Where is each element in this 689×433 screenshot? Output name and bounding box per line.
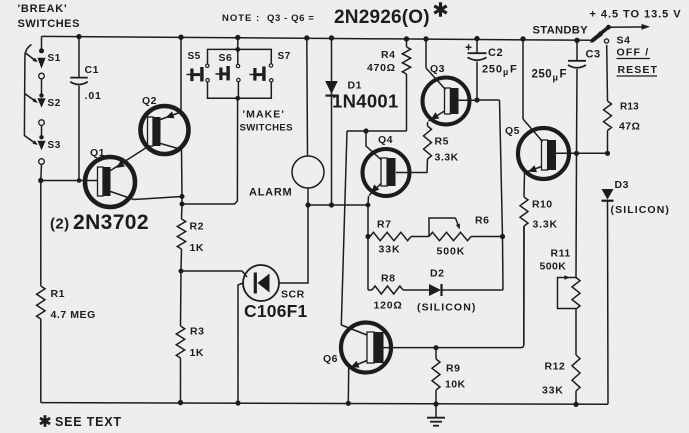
- node D1 bottom junction: [329, 202, 334, 207]
- node Q4 emitter junction: [366, 203, 371, 208]
- wire Q6 emitter: [348, 361, 367, 404]
- svg-text:250: 250: [532, 69, 553, 81]
- note asterisk: [434, 2, 446, 16]
- label R13: [620, 102, 639, 113]
- node make top bracket: [235, 47, 240, 52]
- label S7: [278, 51, 291, 62]
- svg-text:NOTE :: NOTE :: [222, 13, 260, 24]
- transistor Q6: [341, 323, 391, 373]
- svg-text:R11: R11: [551, 248, 571, 260]
- label S1: [48, 53, 61, 64]
- node C1 top: [76, 34, 81, 39]
- svg-text:C3: C3: [586, 49, 601, 61]
- wire Q1 collector: [111, 192, 183, 200]
- svg-text:R10: R10: [532, 199, 552, 211]
- label Q6: [323, 353, 338, 365]
- label R1 value: [51, 309, 96, 321]
- resistor R3: [176, 271, 184, 403]
- svg-text:S2: S2: [48, 98, 61, 109]
- wire Q1 base: [41, 180, 98, 182]
- label SWITCHES (break): [18, 18, 80, 30]
- label R12 value: [542, 385, 564, 397]
- resistor R10: [520, 197, 528, 345]
- wire Q1 emitter to Q2 base: [111, 147, 149, 171]
- label MAKE: [243, 109, 286, 121]
- svg-text:R8: R8: [381, 273, 395, 285]
- svg-text:SEE TEXT: SEE TEXT: [55, 415, 122, 429]
- svg-text:RESET: RESET: [618, 64, 659, 76]
- switch gang arm: [24, 45, 31, 137]
- wire Q3 emitter: [429, 111, 445, 121]
- wire SCR anode: [279, 205, 308, 283]
- svg-text:R3: R3: [190, 326, 204, 338]
- wire R11-R12: [575, 309, 577, 355]
- label C2: [488, 47, 503, 59]
- svg-text:Q3 - Q6 =: Q3 - Q6 =: [267, 13, 314, 24]
- svg-text:S1: S1: [48, 53, 61, 64]
- scr C106F1: [243, 265, 279, 301]
- transistor Q2: [141, 106, 189, 154]
- node R7 left junction: [365, 234, 370, 239]
- node R2/R3/gate junction: [179, 269, 184, 274]
- emitter arrow Q4: [371, 184, 379, 192]
- emitter arrow Q5: [528, 165, 537, 172]
- node R3 bottom at rail: [178, 400, 183, 405]
- transistor Q4: [363, 149, 410, 196]
- label R5 value: [435, 152, 459, 164]
- label R10 value: [533, 219, 558, 231]
- svg-text:120Ω: 120Ω: [374, 300, 403, 312]
- node R12 bottom at rail: [573, 402, 578, 407]
- label R4 value: [367, 62, 396, 74]
- emitter arrow Q3: [431, 112, 440, 120]
- wire R7-R8 left link: [367, 237, 369, 291]
- wire D2 to right riser: [442, 237, 504, 291]
- label S6: [219, 52, 233, 64]
- switch S1: [37, 48, 45, 78]
- svg-text:Q6: Q6: [323, 353, 338, 365]
- label R6: [475, 215, 489, 227]
- label C1: [85, 64, 99, 76]
- label S3: [48, 140, 61, 151]
- label R7 value: [379, 244, 401, 256]
- node alarm bottom junction: [305, 202, 310, 207]
- svg-text:OFF /: OFF /: [617, 47, 650, 59]
- node Q2 emitter at rail: [178, 35, 183, 40]
- node C2 top at rail: [474, 36, 479, 41]
- label RESET: [617, 64, 659, 76]
- switch S6: [216, 64, 241, 81]
- label SEE TEXT: [55, 415, 122, 429]
- switch S3: [37, 135, 45, 164]
- label 2N3702: [50, 211, 149, 234]
- resistor R8: [368, 286, 429, 294]
- wire Q5 emitter: [524, 167, 542, 198]
- svg-text:R9: R9: [446, 363, 460, 375]
- svg-text:Q5: Q5: [505, 125, 520, 137]
- wire Q6 base: [384, 226, 525, 348]
- svg-text:500K: 500K: [540, 261, 567, 273]
- node Q4 collector junction: [363, 128, 368, 133]
- switch S2 blade: [25, 94, 38, 103]
- svg-text:(SILICON): (SILICON): [611, 204, 670, 216]
- wire right rail riser (bottom rail to D3): [607, 201, 610, 405]
- node C3 top at rail: [574, 38, 579, 43]
- label R12: [545, 361, 566, 373]
- label C2 value: [482, 64, 517, 78]
- wire Q2 collector: [161, 144, 183, 197]
- svg-text:µ: µ: [553, 73, 558, 84]
- resistor R12: [572, 355, 580, 404]
- svg-text:ALARM: ALARM: [249, 187, 292, 199]
- label R10: [532, 199, 552, 211]
- potentiometer R11: [558, 275, 581, 309]
- label C3: [586, 49, 601, 61]
- svg-text:C1: C1: [85, 64, 99, 76]
- svg-text:10K: 10K: [445, 379, 465, 391]
- switch S2: [37, 93, 45, 125]
- node D1 top at rail: [329, 35, 334, 40]
- svg-text:'MAKE': 'MAKE': [243, 109, 286, 121]
- node Q6 emitter at rail: [346, 401, 351, 406]
- label D1: [348, 80, 362, 92]
- emitter arrow Q2: [166, 111, 175, 118]
- potentiometer R6: [429, 218, 503, 241]
- svg-text:Q3: Q3: [430, 63, 445, 75]
- node base/C3 junction: [574, 151, 579, 156]
- label S2: [48, 98, 61, 109]
- label OFF/: [617, 47, 651, 59]
- svg-text:R1: R1: [51, 288, 65, 300]
- svg-text:'BREAK': 'BREAK': [18, 3, 68, 15]
- node R6 right junction: [500, 234, 505, 239]
- label D2 silicon: [417, 302, 476, 314]
- label Q4: [378, 134, 393, 146]
- resistor R1: [37, 181, 45, 403]
- node Q3 collector at rail: [423, 36, 428, 41]
- node break-switch chain top corner: [41, 36, 43, 50]
- wire S1-S2: [41, 79, 43, 95]
- wire bottom negative rail: [41, 403, 608, 405]
- node C2 bottom junction: [474, 97, 479, 102]
- wire make-switch rail drop: [237, 38, 239, 65]
- label C3 value: [532, 69, 567, 84]
- svg-text:(SILICON): (SILICON): [417, 302, 476, 314]
- label NOTE: [222, 13, 260, 24]
- svg-text:D3: D3: [615, 179, 629, 191]
- switch S4 lever: [590, 28, 609, 43]
- wire Q3 collector: [426, 39, 446, 90]
- svg-text:47Ω: 47Ω: [619, 121, 640, 133]
- svg-text:250: 250: [482, 64, 503, 76]
- wire Q4 collector lead: [366, 131, 382, 160]
- label ALARM: [249, 187, 292, 199]
- resistor R13: [604, 45, 612, 153]
- transistor Q3: [423, 78, 470, 125]
- resistor R2: [177, 204, 185, 271]
- label STANDBY: [533, 25, 589, 37]
- svg-text:C106F1: C106F1: [244, 301, 308, 321]
- label R6 value: [437, 246, 466, 258]
- wire Q4 emitter drop: [367, 205, 369, 237]
- svg-text:S3: S3: [48, 140, 61, 151]
- label R7: [377, 219, 391, 231]
- transistor Q1: [85, 157, 135, 207]
- label R11: [551, 248, 571, 260]
- svg-text:S4: S4: [617, 35, 631, 47]
- svg-text:S6: S6: [219, 52, 233, 64]
- node C1 bottom: [77, 178, 82, 183]
- diode D2: [429, 284, 442, 296]
- svg-text:1K: 1K: [190, 347, 204, 359]
- svg-text:3.3K: 3.3K: [435, 152, 459, 164]
- switch S1 blade: [25, 53, 38, 63]
- label D3: [615, 179, 629, 191]
- wire alarm top lead: [306, 38, 309, 156]
- wire S2-S3: [41, 125, 43, 137]
- capacitor C1: [70, 37, 88, 181]
- switch S3 blade: [24, 136, 37, 146]
- switch S5: [187, 64, 210, 82]
- wire collector line to Q6: [341, 131, 347, 325]
- svg-text:S7: S7: [278, 51, 291, 62]
- label SCR: [281, 289, 305, 301]
- svg-text:1K: 1K: [190, 242, 204, 254]
- svg-text:µ: µ: [503, 67, 508, 77]
- alarm bell: [292, 156, 324, 188]
- resistor R4: [402, 39, 410, 131]
- wire make-switch top bracket: [208, 49, 272, 64]
- resistor R5: [396, 122, 432, 173]
- wire collector node to make switches: [182, 99, 238, 204]
- svg-text:F: F: [560, 69, 567, 81]
- resistor R9: [432, 348, 440, 404]
- wire collector node drop: [181, 197, 183, 205]
- node make top at rail: [235, 35, 240, 40]
- svg-text:R13: R13: [620, 102, 639, 113]
- label R2 value: [190, 242, 204, 254]
- wire Q4 emitter: [368, 184, 381, 206]
- svg-text:R2: R2: [190, 221, 204, 233]
- label Q1: [90, 147, 105, 159]
- node Q1 base junction: [38, 178, 43, 183]
- label C106F1: [244, 301, 308, 321]
- node Q1/Q2 collector junction: [180, 194, 185, 199]
- wire C2 junction to divider: [456, 100, 503, 237]
- diode D1: [325, 38, 338, 205]
- svg-text:3.3K: 3.3K: [533, 219, 558, 231]
- emitter arrow Q6: [351, 361, 360, 368]
- node R9 bottom at rail: [433, 401, 438, 406]
- label Q3: [430, 63, 445, 75]
- wire Q6 collector lead: [341, 325, 367, 335]
- label R2: [190, 221, 204, 233]
- svg-text:R7: R7: [377, 219, 391, 231]
- see-text asterisk: [40, 415, 50, 427]
- capacitor C3: [568, 40, 586, 277]
- svg-text:470Ω: 470Ω: [367, 62, 396, 74]
- transistor Q5: [518, 128, 569, 179]
- node make bottom bracket: [235, 96, 240, 101]
- wire SCR gate: [181, 271, 247, 277]
- svg-text:2N3702: 2N3702: [73, 211, 149, 234]
- diode D3: [602, 189, 614, 201]
- svg-text:SWITCHES: SWITCHES: [240, 123, 294, 134]
- label S4: [617, 35, 631, 47]
- label S5: [188, 51, 201, 62]
- wire S3 to base node: [40, 164, 43, 180]
- label C1 value: [85, 90, 102, 102]
- capacitor C2: [466, 39, 487, 100]
- svg-text:D2: D2: [430, 268, 444, 280]
- label BREAK: [18, 3, 68, 15]
- wire SCR cathode: [238, 283, 243, 403]
- svg-text:500K: 500K: [437, 246, 466, 258]
- svg-text:R12: R12: [545, 361, 566, 373]
- wire alarm junction row: [308, 204, 368, 206]
- svg-text:Q4: Q4: [378, 134, 393, 146]
- wire supply arrow: [609, 24, 651, 30]
- label R8: [381, 273, 395, 285]
- label R1: [51, 288, 65, 300]
- label R3 value: [190, 347, 204, 359]
- svg-text:SWITCHES: SWITCHES: [18, 18, 80, 30]
- svg-text:4.7 MEG: 4.7 MEG: [51, 309, 96, 321]
- node SCR cathode at rail: [235, 400, 240, 405]
- node base/D3 junction: [605, 151, 610, 156]
- label 1N4001: [332, 91, 399, 112]
- wire Q5 collector: [523, 39, 543, 142]
- svg-text:R4: R4: [381, 49, 395, 61]
- wire R4 to Q4 collector: [347, 130, 407, 132]
- label R11 value: [540, 261, 567, 273]
- svg-text:C2: C2: [488, 47, 503, 59]
- wire Q5 base: [556, 152, 608, 154]
- label D2: [430, 268, 444, 280]
- svg-text:+ 4.5 TO 13.5 V: + 4.5 TO 13.5 V: [590, 9, 682, 21]
- svg-text:(2): (2): [50, 216, 70, 233]
- svg-text:F: F: [510, 64, 517, 76]
- node R2 top junction: [180, 202, 185, 207]
- label 2N2926(O): [334, 7, 430, 28]
- wire top supply rail: [42, 36, 593, 40]
- svg-text:R5: R5: [435, 136, 449, 148]
- svg-text:S5: S5: [188, 51, 201, 62]
- node Q5 collector at rail: [520, 36, 525, 41]
- switch S7: [250, 64, 273, 82]
- label SWITCHES (make): [240, 123, 294, 134]
- wire alarm bottom lead: [307, 188, 309, 205]
- label R8 value: [374, 300, 403, 312]
- label D3 silicon: [611, 204, 670, 216]
- label supply voltage: [590, 9, 682, 21]
- svg-text:1N4001: 1N4001: [332, 91, 399, 112]
- node S4 lever tip: [606, 25, 611, 30]
- svg-text:.01: .01: [85, 90, 102, 102]
- svg-text:Q2: Q2: [142, 95, 157, 107]
- svg-text:33K: 33K: [379, 244, 401, 256]
- label Q5: [505, 125, 520, 137]
- node alarm top at rail: [304, 35, 309, 40]
- label R5: [435, 136, 449, 148]
- svg-text:Q1: Q1: [90, 147, 105, 159]
- label R4: [381, 49, 395, 61]
- svg-text:SCR: SCR: [281, 289, 305, 301]
- svg-text:2N2926(O): 2N2926(O): [334, 7, 430, 28]
- svg-text:33K: 33K: [542, 385, 564, 397]
- ground: [427, 404, 445, 426]
- svg-text:R6: R6: [475, 215, 489, 227]
- wire make-switch bottom bracket: [208, 82, 272, 98]
- svg-text:STANDBY: STANDBY: [533, 25, 589, 37]
- wire Q2 emitter riser: [161, 37, 182, 119]
- label R13 value: [619, 121, 640, 133]
- label R9 value: [445, 379, 465, 391]
- label R9: [446, 363, 460, 375]
- node R4 top at rail: [404, 36, 409, 41]
- emitter arrow Q1: [116, 160, 125, 168]
- label R3: [190, 326, 204, 338]
- label Q2: [142, 95, 157, 107]
- node R9 top junction: [433, 345, 438, 350]
- label Q3-Q6 =: [267, 13, 314, 24]
- resistor R7: [370, 232, 429, 240]
- wire S6 bottom stub: [237, 82, 239, 98]
